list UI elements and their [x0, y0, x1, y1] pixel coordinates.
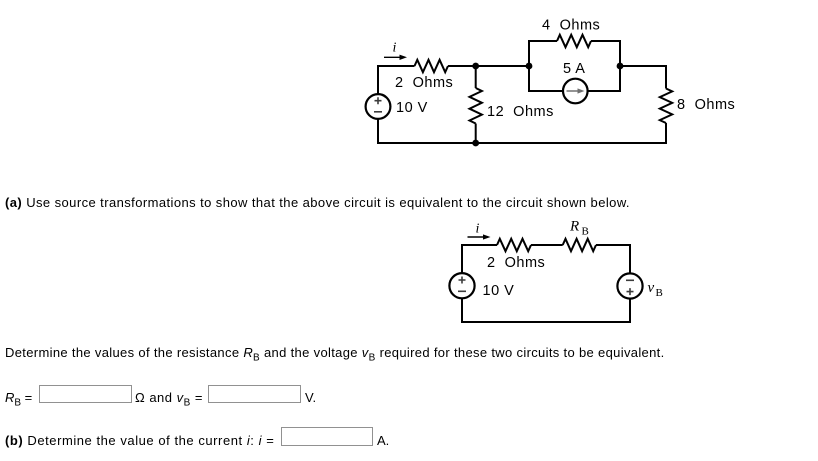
label 5 A: [563, 61, 585, 77]
label vB: [648, 280, 663, 299]
svg-text:2 Ohms: 2 Ohms: [395, 75, 453, 91]
wire bottom (bottom circuit): [461, 321, 631, 323]
svg-text:10 V: 10 V: [483, 283, 515, 299]
svg-text:4 Ohms: 4 Ohms: [542, 18, 600, 34]
wire 5 A branch left: [529, 65, 563, 91]
voltage source V1 10V (top circuit): [366, 94, 391, 119]
svg-text:v: v: [648, 280, 655, 296]
label 8 Ohms: [677, 97, 735, 113]
wire top-right (bottom circuit): [596, 244, 631, 246]
answer row RB and vB: [5, 390, 32, 409]
current label i (bottom circuit): [476, 222, 480, 237]
svg-text:i: i: [393, 41, 397, 56]
node B (parallel section left): [526, 63, 533, 70]
node D (bottom junction): [472, 140, 479, 147]
wire node C to right rail: [620, 66, 666, 89]
label 2 Ohms (bottom circuit): [487, 255, 545, 271]
resistor 2 Ohms (bottom circuit): [497, 239, 531, 251]
resistor RB: [563, 239, 596, 251]
wire right rail lower: [665, 123, 667, 144]
svg-text:2 Ohms: 2 Ohms: [487, 255, 545, 271]
svg-text:8 Ohms: 8 Ohms: [677, 97, 735, 113]
node A (12 Ohms top junction): [472, 63, 479, 70]
label 12 Ohms: [487, 104, 554, 120]
current arrow i (bottom circuit): [468, 234, 491, 239]
label 10 V (top circuit): [396, 100, 428, 116]
svg-text:i: i: [476, 222, 480, 237]
current label i (top circuit): [393, 41, 397, 56]
svg-text:5 A: 5 A: [563, 61, 585, 77]
current source I1 5A: [563, 79, 588, 104]
text row (a): [5, 195, 630, 210]
wire right rail upper (bottom circuit): [629, 244, 631, 273]
current arrow i (top circuit): [384, 55, 407, 60]
svg-text:10 V: 10 V: [396, 100, 428, 116]
resistor 8 Ohms: [660, 89, 672, 124]
resistor 4 Ohms: [557, 35, 591, 47]
resistor 2 Ohms (top circuit): [415, 60, 449, 72]
input box i: [281, 427, 373, 446]
voltage source vB: [617, 273, 642, 298]
svg-text:R: R: [569, 219, 579, 235]
svg-text:B: B: [656, 287, 663, 299]
wire 4 Ohms branch left: [529, 41, 557, 67]
voltage source V1 10V (bottom circuit): [449, 273, 474, 298]
wire top-left (bottom circuit): [462, 244, 498, 246]
label 10 V (bottom circuit): [483, 283, 515, 299]
wire 5 A branch right: [588, 65, 620, 91]
wire from 2 Ohms to parallel section: [448, 65, 529, 67]
svg-text:B: B: [582, 226, 589, 238]
input box RB: [39, 385, 132, 403]
wire between resistors (bottom circuit): [531, 244, 563, 246]
text row (b): [5, 433, 274, 448]
text row: determine values: [5, 345, 665, 364]
wire 12 Ohms lower stem: [475, 124, 477, 145]
label 2 Ohms (top circuit): [395, 75, 453, 91]
svg-text:12 Ohms: 12 Ohms: [487, 104, 554, 120]
wire top-left rail lower: [377, 119, 379, 144]
input box vB: [208, 385, 301, 403]
label 4 Ohms: [542, 18, 600, 34]
wire right rail lower (bottom circuit): [629, 299, 631, 323]
wire 12 Ohms upper stem: [475, 66, 477, 88]
label RB: [569, 219, 589, 238]
wire bottom (top circuit): [377, 142, 667, 144]
wire left rail upper (bottom circuit): [461, 244, 463, 273]
wire top-left rail upper: [377, 67, 379, 94]
resistor 12 Ohms: [470, 88, 482, 124]
node C (parallel section right): [617, 63, 624, 70]
wire 4 Ohms branch right: [591, 41, 620, 67]
wire left rail lower (bottom circuit): [461, 298, 463, 323]
wire top before 2 Ohms: [377, 65, 415, 67]
